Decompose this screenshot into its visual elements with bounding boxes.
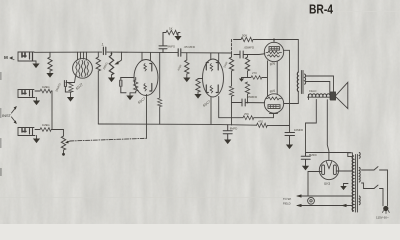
svg-text:.05MFD: .05MFD <box>244 46 256 50</box>
wire (B+ drop to rectifier) <box>327 100 329 161</box>
wire (wiper of P2) <box>114 52 121 64</box>
tube VA 6F6 <box>264 42 283 61</box>
resistor R9 <box>248 76 267 80</box>
ground (C7) <box>286 145 293 150</box>
resistor R3 grid <box>185 53 189 78</box>
potentiometer P1 <box>61 136 65 156</box>
capacitor Ck1 <box>64 81 70 93</box>
resistor R4 <box>196 79 200 94</box>
resistor R2 plate load <box>96 52 100 71</box>
svg-text:FIELD: FIELD <box>283 202 291 206</box>
capacitor C4 (VB grid) <box>232 99 265 106</box>
resistor Rk2 <box>130 78 138 93</box>
edge smudges <box>0 72 2 176</box>
svg-text:.1: .1 <box>101 43 104 47</box>
svg-text:115V 60~: 115V 60~ <box>376 216 389 220</box>
ground (R4) <box>194 94 201 99</box>
wire (VR right plate) <box>336 170 352 172</box>
capacitor C5 8MFD <box>301 153 310 166</box>
jack J3 <box>18 128 35 136</box>
svg-text:INST.: INST. <box>2 113 12 118</box>
wire (VR lower lead) <box>344 183 349 185</box>
resistor R5 <box>243 114 278 120</box>
ground (J3) <box>33 136 40 144</box>
ground (P2) <box>108 78 115 83</box>
resistor Rk2b right <box>158 53 162 125</box>
svg-text:1MEG: 1MEG <box>42 85 50 89</box>
jack J2 <box>18 90 35 98</box>
wire (VA plate up) <box>273 40 275 43</box>
svg-text:270: 270 <box>252 71 257 75</box>
wire (V1 cathode) <box>66 76 76 82</box>
resistor R-1k <box>163 30 180 36</box>
wire main top line 2 <box>107 51 178 54</box>
tube VB 6F6 <box>264 94 283 113</box>
jack J1 <box>18 52 36 61</box>
capacitor Ck2 <box>120 78 126 93</box>
transformer T1 output <box>297 40 305 104</box>
wire (heater line 2) <box>296 204 353 207</box>
ground (J2) <box>33 98 40 106</box>
svg-text:M: M <box>4 55 8 60</box>
svg-text:.05MFD: .05MFD <box>247 95 259 99</box>
wire (VB plate right) <box>284 103 299 105</box>
svg-text:FIELD: FIELD <box>309 89 316 93</box>
svg-text:25K: 25K <box>244 112 249 116</box>
wire (B+ node line) <box>306 152 351 154</box>
rectifier tube VR 5Y3 <box>319 160 338 179</box>
resistor R10 lower <box>245 82 249 103</box>
bias line main <box>98 124 256 125</box>
svg-text:50K: 50K <box>242 34 247 38</box>
wire (V3 cathode downs) <box>210 97 212 125</box>
ground (C6) <box>224 140 231 145</box>
svg-text:1MEG: 1MEG <box>42 123 50 127</box>
capacitor C6 8MFD mid <box>223 125 232 140</box>
wire main top line <box>34 51 102 53</box>
resistor R1 <box>48 52 52 73</box>
wire (J2-J3 join) <box>52 91 64 136</box>
tube V1 6SJ7 <box>73 52 93 78</box>
svg-text:8MFD: 8MFD <box>230 126 238 130</box>
resistor R6b lower <box>229 86 233 125</box>
ground (R3) <box>183 78 190 83</box>
wire (VR left lead down) <box>308 172 322 197</box>
wire (V2 grid down) <box>146 95 148 139</box>
capacitor C7 10MFD <box>285 133 295 145</box>
svg-text:5Y3: 5Y3 <box>324 182 330 186</box>
wire (VA to VB pins) <box>268 61 278 97</box>
potentiometer P2 <box>109 52 113 77</box>
ground (V1 cathode) <box>67 97 74 102</box>
ground (R-1k) <box>174 36 181 41</box>
ground (C5) <box>302 166 309 171</box>
wire (heater line 1) <box>296 194 353 197</box>
wire crease top <box>337 11 400 13</box>
resistor R7 50k feedback <box>234 37 299 41</box>
wire (V3 grid left) <box>198 78 203 81</box>
resistor R6 plate load <box>229 53 233 86</box>
tube V2 6SC7 <box>134 52 158 95</box>
pilot lamp PL <box>308 197 315 204</box>
wire (VA screen right down) <box>284 50 290 132</box>
wire main top line 3 <box>182 52 232 54</box>
wire (wiper dashed run) <box>70 138 147 141</box>
capacitor C2 coupling <box>178 49 181 56</box>
capacitor C3 (VA grid) <box>234 51 265 58</box>
resistor R8 <box>245 55 249 78</box>
wire (V2 cathode left rail) <box>121 77 135 79</box>
tube V3 6SC7 phase inverter <box>203 53 224 97</box>
ground (R1) <box>46 73 53 78</box>
resistor R12 <box>35 89 52 93</box>
wire crease <box>0 197 288 199</box>
svg-text:470: 470 <box>258 119 263 123</box>
svg-text:.05 MFD: .05 MFD <box>184 45 196 49</box>
transformer T2 power <box>348 153 360 213</box>
ground (VR line) <box>340 184 346 191</box>
svg-text:BR-4: BR-4 <box>309 3 333 17</box>
plug P <box>383 206 390 214</box>
speaker field coil <box>308 94 331 100</box>
svg-text:10MFD: 10MFD <box>294 128 303 132</box>
wire feedback dashed <box>231 40 233 54</box>
wire (INST arrows) <box>12 106 17 124</box>
svg-text:8MFD: 8MFD <box>309 153 317 157</box>
svg-text:1K: 1K <box>169 27 173 31</box>
switch S1 <box>362 167 388 206</box>
wire (P1 wiper arrow) <box>65 141 70 144</box>
ground (jack J1) <box>32 61 39 68</box>
capacitor C8mfd mid <box>159 33 167 53</box>
wire (field drop) <box>306 100 317 153</box>
capacitor C1 coupling <box>103 47 105 54</box>
switch S2 <box>362 183 384 206</box>
resistor R13 <box>35 128 52 132</box>
resistor R11 470 <box>257 123 268 127</box>
speaker SP1 <box>331 82 348 108</box>
ground (V2 cathode) <box>126 93 133 100</box>
ground tick (R8 node) <box>239 78 248 82</box>
svg-text:8MFD: 8MFD <box>168 45 176 49</box>
wire (T1 secondary to speaker) <box>306 76 334 95</box>
wire (plate node down) <box>97 71 99 124</box>
resistor Rk1 <box>69 83 73 98</box>
